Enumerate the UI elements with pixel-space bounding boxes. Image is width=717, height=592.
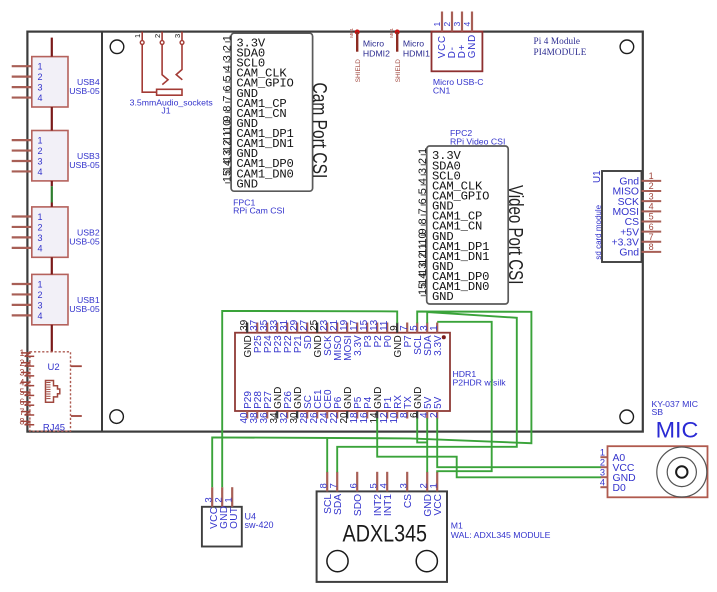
svg-text:MH1: MH1	[349, 28, 354, 38]
USB strip divider line	[101, 32, 103, 432]
svg-text:3: 3	[417, 168, 429, 174]
svg-text:6: 6	[649, 222, 654, 232]
FPC2 pin 6 stub	[421, 204, 427, 206]
mounting hole bottom-right	[620, 410, 634, 424]
FPC2 pin 3 stub	[421, 174, 427, 176]
svg-text:7: 7	[417, 208, 429, 214]
USB4 pin 4 stub	[12, 96, 32, 98]
svg-text:CS: CS	[403, 494, 414, 508]
svg-text:2: 2	[417, 158, 429, 164]
connector J1 3.5mmAudio_sockets	[130, 32, 214, 116]
svg-text:GND: GND	[236, 177, 258, 191]
HDR1 pin 19 stub	[346, 323, 348, 333]
HDR1 pin 21 stub	[336, 323, 338, 333]
svg-text:5V: 5V	[433, 396, 444, 409]
svg-text:15: 15	[417, 283, 429, 295]
FPC1 pin 14 stub	[225, 172, 231, 174]
HDR1 pin 30 stub	[296, 411, 298, 419]
U1 pin 2 stub	[642, 190, 662, 192]
Pi 4 Module body outline	[27, 32, 642, 432]
svg-text:1: 1	[38, 136, 43, 146]
svg-text:4: 4	[417, 178, 429, 184]
U2 right stub a	[71, 365, 82, 367]
svg-text:RPi Video CSI: RPi Video CSI	[450, 136, 505, 146]
svg-text:2: 2	[38, 290, 43, 300]
M1 pin 3 stub	[406, 472, 408, 492]
M1 pin 5 stub	[376, 472, 378, 492]
U4 pin 1 stub	[231, 487, 233, 507]
FPC2 pin 1 stub	[421, 154, 427, 156]
svg-text:MH1: MH1	[389, 28, 394, 38]
M1 pin 8 stub	[326, 472, 328, 492]
FPC2 pin 2 stub	[421, 164, 427, 166]
USB2 pin 1 stub	[12, 215, 32, 217]
svg-text:5: 5	[417, 188, 429, 194]
svg-text:3: 3	[649, 191, 654, 201]
svg-text:4: 4	[38, 93, 43, 103]
svg-text:4: 4	[38, 243, 43, 253]
svg-text:SDA: SDA	[333, 494, 344, 515]
FPC1 pin 13 stub	[225, 162, 231, 164]
FPC2 pin 13 stub	[421, 274, 427, 276]
svg-text:2: 2	[649, 181, 654, 191]
M1 mounting circle left	[327, 551, 348, 572]
U1 pin 1 stub	[642, 180, 662, 182]
svg-text:2: 2	[38, 222, 43, 232]
HDR1 pin 23 stub	[326, 323, 328, 333]
svg-text:Cam Port CSI: Cam Port CSI	[308, 83, 330, 179]
HDMI2 junction dot	[355, 30, 360, 35]
svg-text:4: 4	[649, 202, 654, 212]
svg-text:4: 4	[20, 377, 25, 387]
HDR1 pin 6 stub	[416, 411, 418, 419]
FPC1 pin 2 stub	[225, 51, 231, 53]
wire net B branch: ADXL345 SCL riser	[326, 438, 328, 472]
svg-text:SB: SB	[652, 407, 664, 417]
svg-text:2: 2	[38, 146, 43, 156]
FPC2 pin 15 stub	[421, 295, 427, 297]
svg-text:2: 2	[38, 72, 43, 82]
FPC1 pin 10 stub	[225, 131, 231, 133]
HDMI1 shield wire	[396, 32, 398, 52]
J1 pin 2 contact	[162, 44, 168, 84]
HDR1 pin 4 stub	[426, 411, 428, 419]
wire USB3 to USB2 (red-green-red)	[51, 181, 53, 207]
USB2 pin 4 stub	[12, 247, 32, 249]
FPC2 pin 4 stub	[421, 184, 427, 186]
module U1 sd card module	[592, 170, 661, 262]
HDR1 pin 38 stub	[256, 411, 258, 419]
connector U2 RJ45 (dashed)	[20, 348, 82, 434]
svg-text:Video Port CSI: Video Port CSI	[504, 185, 526, 284]
svg-text:SHIELD: SHIELD	[395, 59, 402, 82]
svg-text:WAL: ADXL345 MODULE: WAL: ADXL345 MODULE	[451, 530, 551, 540]
USB3 pin 2 stub	[12, 149, 32, 151]
svg-text:1: 1	[221, 35, 233, 41]
svg-text:1: 1	[429, 325, 440, 331]
USB4 pin 3 stub	[12, 86, 32, 88]
svg-text:INT1: INT1	[383, 494, 394, 516]
svg-text:1: 1	[20, 348, 25, 358]
FPC1 pin 8 stub	[225, 111, 231, 113]
FPC1 pin 7 stub	[225, 101, 231, 103]
HDR1 pin 22 stub	[336, 411, 338, 419]
svg-text:8: 8	[20, 417, 25, 427]
CN1 pin 3 stub	[461, 12, 463, 32]
M1 pin 1 stub	[436, 472, 438, 492]
FPC1 pin 12 stub	[225, 152, 231, 154]
FPC1 pin 1 stub	[225, 41, 231, 43]
svg-text:SDO: SDO	[353, 494, 364, 516]
FPC2 pin 5 stub	[421, 194, 427, 196]
HDR1 pin 31 stub	[286, 323, 288, 333]
FPC2 pin 8 stub	[421, 224, 427, 226]
FPC1 pin 15 stub	[225, 182, 231, 184]
wire net C: HDR1 pin3 SDA to ADXL345 SDA	[337, 312, 517, 472]
HDR1 pin 15 stub	[366, 323, 368, 333]
HDR1 pin 36 stub	[266, 411, 268, 419]
M1 pin 2 stub	[426, 472, 428, 492]
HDR1 pin 20 stub	[346, 411, 348, 419]
svg-text:P2HDR w/silk: P2HDR w/silk	[453, 378, 507, 388]
svg-text:3: 3	[600, 468, 605, 478]
FPC1 pin 11 stub	[225, 142, 231, 144]
HDR1 pin 13 stub	[376, 323, 378, 333]
U2 pin 1	[21, 352, 31, 354]
USB3 pin 3 stub	[12, 160, 32, 162]
svg-text:7: 7	[329, 483, 340, 488]
U2 pin 2	[21, 362, 31, 364]
svg-text:VCC: VCC	[433, 494, 444, 516]
HDR1 pin 12 stub	[386, 411, 388, 419]
HDR1 pin 28 stub	[306, 411, 308, 419]
HDR1 pin 34 stub	[276, 411, 278, 419]
svg-text:OUT: OUT	[229, 507, 240, 529]
SB mic symbol outer circle	[657, 447, 707, 497]
svg-text:J1: J1	[161, 105, 170, 115]
HDR1 pin 11 stub	[386, 323, 388, 333]
svg-text:3: 3	[38, 300, 43, 310]
svg-text:2: 2	[221, 45, 233, 51]
HDR1 pin 39 stub	[246, 323, 248, 333]
svg-text:ADXL345: ADXL345	[343, 521, 428, 548]
connector FPC1 RPi CSI	[221, 33, 312, 191]
HDR1 pin 29 stub	[296, 323, 298, 333]
J1 pin 2 circle	[160, 41, 164, 45]
svg-text:8: 8	[649, 242, 654, 252]
J1 pin 1 stub	[141, 32, 143, 41]
FPC2 pin 10 stub	[421, 244, 427, 246]
HDR1 pin 27 stub	[306, 323, 308, 333]
connector USB3 (USB-05)	[12, 131, 100, 181]
svg-text:SHIELD: SHIELD	[355, 59, 362, 82]
M1 pin 7 stub	[336, 472, 338, 492]
svg-text:D0: D0	[613, 483, 627, 494]
HDR1 pin 9 stub	[396, 323, 398, 333]
svg-text:USB-05: USB-05	[69, 236, 100, 246]
U2 pin 3	[21, 371, 31, 373]
svg-text:CN1: CN1	[433, 86, 451, 96]
svg-text:3: 3	[221, 55, 233, 61]
U2 pin 5	[21, 391, 31, 393]
HDR1 pin 26 stub	[316, 411, 318, 419]
USB2 pin 2 stub	[12, 226, 32, 228]
FPC2 pin 9 stub	[421, 234, 427, 236]
HDR1 pin 8 stub	[406, 411, 408, 419]
svg-text:10: 10	[417, 232, 429, 244]
svg-text:3: 3	[38, 233, 43, 243]
FPC1 pin 4 stub	[225, 71, 231, 73]
HDR1 pin 10 stub	[396, 411, 398, 419]
svg-text:4: 4	[600, 478, 605, 488]
U1 pin 7 stub	[642, 241, 662, 243]
wire net F: HDR1 pin4 to ADXL345 GND	[426, 418, 428, 472]
module SB KY-037 MIC	[600, 399, 708, 498]
svg-text:3.5mmAudio_sockets: 3.5mmAudio_sockets	[130, 98, 214, 108]
svg-text:3: 3	[452, 22, 462, 27]
HDR1 pin 16 stub	[366, 411, 368, 419]
HDMI2 shield wire	[356, 32, 358, 52]
USB1 pin 1 stub	[12, 283, 32, 285]
svg-text:USB-05: USB-05	[69, 160, 100, 170]
FPC1 pin 6 stub	[225, 91, 231, 93]
wire net B: HDR1 pin5 SCL loop to sw-420 VCC (U4 pin3)	[212, 312, 531, 488]
svg-text:3: 3	[38, 83, 43, 93]
svg-text:1: 1	[38, 62, 43, 72]
CN1 pin 2 stub	[451, 12, 453, 32]
svg-text:1: 1	[600, 448, 605, 458]
USB3 pin 4 stub	[12, 170, 32, 172]
HDR1 pin 33 stub	[276, 323, 278, 333]
J1 pin 2 stub	[161, 32, 163, 41]
svg-text:2: 2	[153, 34, 162, 38]
svg-text:sw-420: sw-420	[245, 520, 274, 530]
J1 pin 1 wire to sleeve	[142, 44, 156, 92]
wire top border to USB4	[51, 38, 53, 57]
svg-text:2: 2	[442, 22, 452, 27]
mounting hole top-left	[110, 40, 124, 54]
svg-text:6: 6	[417, 198, 429, 204]
Micro HDMI1 shield pin	[389, 28, 430, 83]
svg-text:7: 7	[221, 95, 233, 101]
mounting hole top-right	[620, 40, 634, 54]
svg-text:4: 4	[38, 167, 43, 177]
svg-text:5: 5	[649, 212, 654, 222]
CN1 pin 1 stub	[441, 12, 443, 32]
svg-text:8: 8	[417, 218, 429, 224]
HDR1 pin 14 stub	[376, 411, 378, 419]
HDR1 pin 32 stub	[286, 411, 288, 419]
FPC2 pin 11 stub	[421, 254, 427, 256]
svg-text:6: 6	[349, 483, 360, 488]
svg-text:GND: GND	[432, 290, 454, 304]
svg-text:Micro: Micro	[363, 39, 384, 49]
USB4 pin 2 stub	[12, 76, 32, 78]
U2 pin 6	[21, 401, 31, 403]
svg-text:15: 15	[221, 170, 233, 182]
M1 pin 4 stub	[386, 472, 388, 492]
HDR1 pin 24 stub	[326, 411, 328, 419]
connector USB2 (USB-05)	[12, 207, 100, 257]
svg-text:1: 1	[224, 497, 235, 502]
wire net D: HDR1 pin1 3.3V to ADXL345 VCC	[437, 322, 492, 473]
svg-text:USB-05: USB-05	[69, 304, 100, 314]
FPC2 pin 14 stub	[421, 285, 427, 287]
HDR1 pin1 marker dot	[442, 335, 446, 339]
HDR1 pin 3 stub	[426, 323, 428, 333]
svg-text:2: 2	[429, 412, 440, 418]
HDR1 pin 5 stub	[416, 323, 418, 333]
svg-text:U1: U1	[592, 170, 603, 183]
SB pin 3 stub	[600, 476, 607, 478]
svg-text:Micro: Micro	[403, 39, 424, 49]
svg-text:2: 2	[20, 358, 25, 368]
svg-text:1: 1	[133, 34, 142, 38]
svg-text:3: 3	[20, 368, 25, 378]
svg-text:4: 4	[221, 65, 233, 71]
svg-text:4: 4	[379, 483, 390, 489]
svg-text:4: 4	[462, 22, 472, 27]
HDR1 pin 18 stub	[356, 411, 358, 419]
USB1 pin 4 stub	[12, 314, 32, 316]
svg-text:1: 1	[417, 148, 429, 154]
svg-text:U2: U2	[48, 362, 60, 373]
module M1 ADXL345	[317, 472, 551, 582]
wire USB1 to RJ45 U2	[51, 325, 53, 352]
svg-text:sd card module: sd card module	[594, 204, 603, 259]
svg-text:3: 3	[399, 483, 410, 488]
J1 sleeve rectangle	[157, 89, 182, 95]
U1 pin 8 stub	[642, 251, 662, 253]
connector USB1 (USB-05)	[12, 274, 100, 324]
FPC1 pin 5 stub	[225, 81, 231, 83]
U2 pin 8	[21, 420, 31, 422]
SB pin 1 stub	[600, 456, 607, 458]
svg-text:7: 7	[20, 407, 25, 417]
wire net F: HDR1 pin6 GND jog	[417, 418, 427, 442]
USB4 pin 1 stub	[12, 65, 32, 67]
connector CN1 Micro USB-C	[432, 12, 484, 96]
J1 pin 3 circle	[180, 41, 184, 45]
svg-text:1: 1	[38, 212, 43, 222]
U2 pin 4	[21, 381, 31, 383]
U4 pin 3 stub	[211, 487, 213, 507]
svg-text:HDMI2: HDMI2	[363, 48, 390, 58]
U1 pin 3 stub	[642, 200, 662, 202]
FPC2 pin 7 stub	[421, 214, 427, 216]
M1 pin 6 stub	[356, 472, 358, 492]
header HDR1 P2HDR w/silk	[235, 319, 506, 423]
svg-text:6: 6	[20, 397, 25, 407]
svg-text:Pi 4 Module: Pi 4 Module	[534, 36, 581, 46]
HDR1 pin 25 stub	[316, 323, 318, 333]
HDR1 pin 7 stub	[406, 323, 408, 333]
J1 pin 3 stub	[181, 32, 183, 41]
svg-text:GND: GND	[467, 34, 478, 58]
module U4 sw-420	[202, 487, 274, 546]
wire net E: HDR1 pin2 5V to MIC VCC	[437, 418, 601, 467]
FPC2 pin 12 stub	[421, 264, 427, 266]
svg-text:USB-05: USB-05	[69, 86, 100, 96]
svg-text:1: 1	[429, 483, 440, 488]
svg-text:HDMI1: HDMI1	[403, 48, 430, 58]
U2 right stub b	[71, 415, 82, 417]
svg-text:5: 5	[20, 387, 25, 397]
J1 pin 3 contact	[176, 44, 182, 79]
HDR1 pin 2 stub	[436, 411, 438, 419]
svg-text:10: 10	[221, 120, 233, 132]
Micro HDMI2 shield pin	[349, 28, 390, 83]
HDR1 pin 17 stub	[356, 323, 358, 333]
wire net G: HDR1 pin14 GND to MIC GND	[377, 418, 601, 477]
USB3 pin 1 stub	[12, 139, 32, 141]
U4 pin 2 stub	[221, 487, 223, 507]
wire USB2 to USB1	[51, 257, 53, 274]
svg-text:8: 8	[221, 106, 233, 112]
U2 pin 7	[21, 411, 31, 413]
FPC1 pin 3 stub	[225, 61, 231, 63]
svg-text:4: 4	[38, 311, 43, 321]
svg-text:1: 1	[649, 171, 654, 181]
module label Pi 4 Module PI4MODULE	[534, 36, 587, 57]
HDR1 pin 1 stub	[436, 323, 438, 333]
USB2 pin 3 stub	[12, 236, 32, 238]
svg-text:Gnd: Gnd	[619, 248, 639, 259]
svg-text:RPi Cam CSI: RPi Cam CSI	[233, 205, 285, 215]
U2 RJ45 jack icon	[46, 381, 60, 403]
svg-text:MIC: MIC	[656, 417, 699, 442]
J1 pin 1 circle	[140, 41, 144, 45]
wire net A: HDR1 pin9 to sw-420 GND (U4 pin2)	[222, 311, 397, 487]
svg-text:PI4MODULE: PI4MODULE	[534, 47, 587, 57]
HDR1 pin 40 stub	[246, 411, 248, 419]
connector USB4 (USB-05)	[12, 57, 100, 107]
SB mic symbol middle circle	[667, 457, 696, 486]
SB pin 4 stub	[600, 486, 607, 488]
SB mic symbol inner circle	[676, 466, 687, 477]
svg-text:2: 2	[600, 458, 605, 468]
svg-text:6: 6	[221, 85, 233, 91]
CN1 pin 4 stub	[471, 12, 473, 32]
U1 pin 6 stub	[642, 231, 662, 233]
USB1 pin 3 stub	[12, 304, 32, 306]
FPC1 pin 9 stub	[225, 121, 231, 123]
HDR1 pin 37 stub	[256, 323, 258, 333]
svg-text:7: 7	[649, 232, 654, 242]
svg-text:3: 3	[173, 34, 182, 38]
svg-text:1: 1	[38, 279, 43, 289]
U1 pin 5 stub	[642, 220, 662, 222]
SB pin 2 stub	[600, 466, 607, 468]
HDMI1 junction dot	[395, 30, 400, 35]
USB1 pin 2 stub	[12, 293, 32, 295]
mounting hole bottom-left	[110, 410, 124, 424]
svg-text:RJ45: RJ45	[43, 423, 65, 434]
U1 pin 4 stub	[642, 210, 662, 212]
M1 mounting circle right	[416, 551, 437, 572]
svg-text:3: 3	[38, 156, 43, 166]
svg-text:1: 1	[432, 22, 442, 27]
svg-text:5: 5	[221, 75, 233, 81]
connector FPC2 RPi CSI	[417, 146, 508, 304]
HDR1 pin 35 stub	[266, 323, 268, 333]
wire USB4 to USB3	[51, 107, 53, 131]
